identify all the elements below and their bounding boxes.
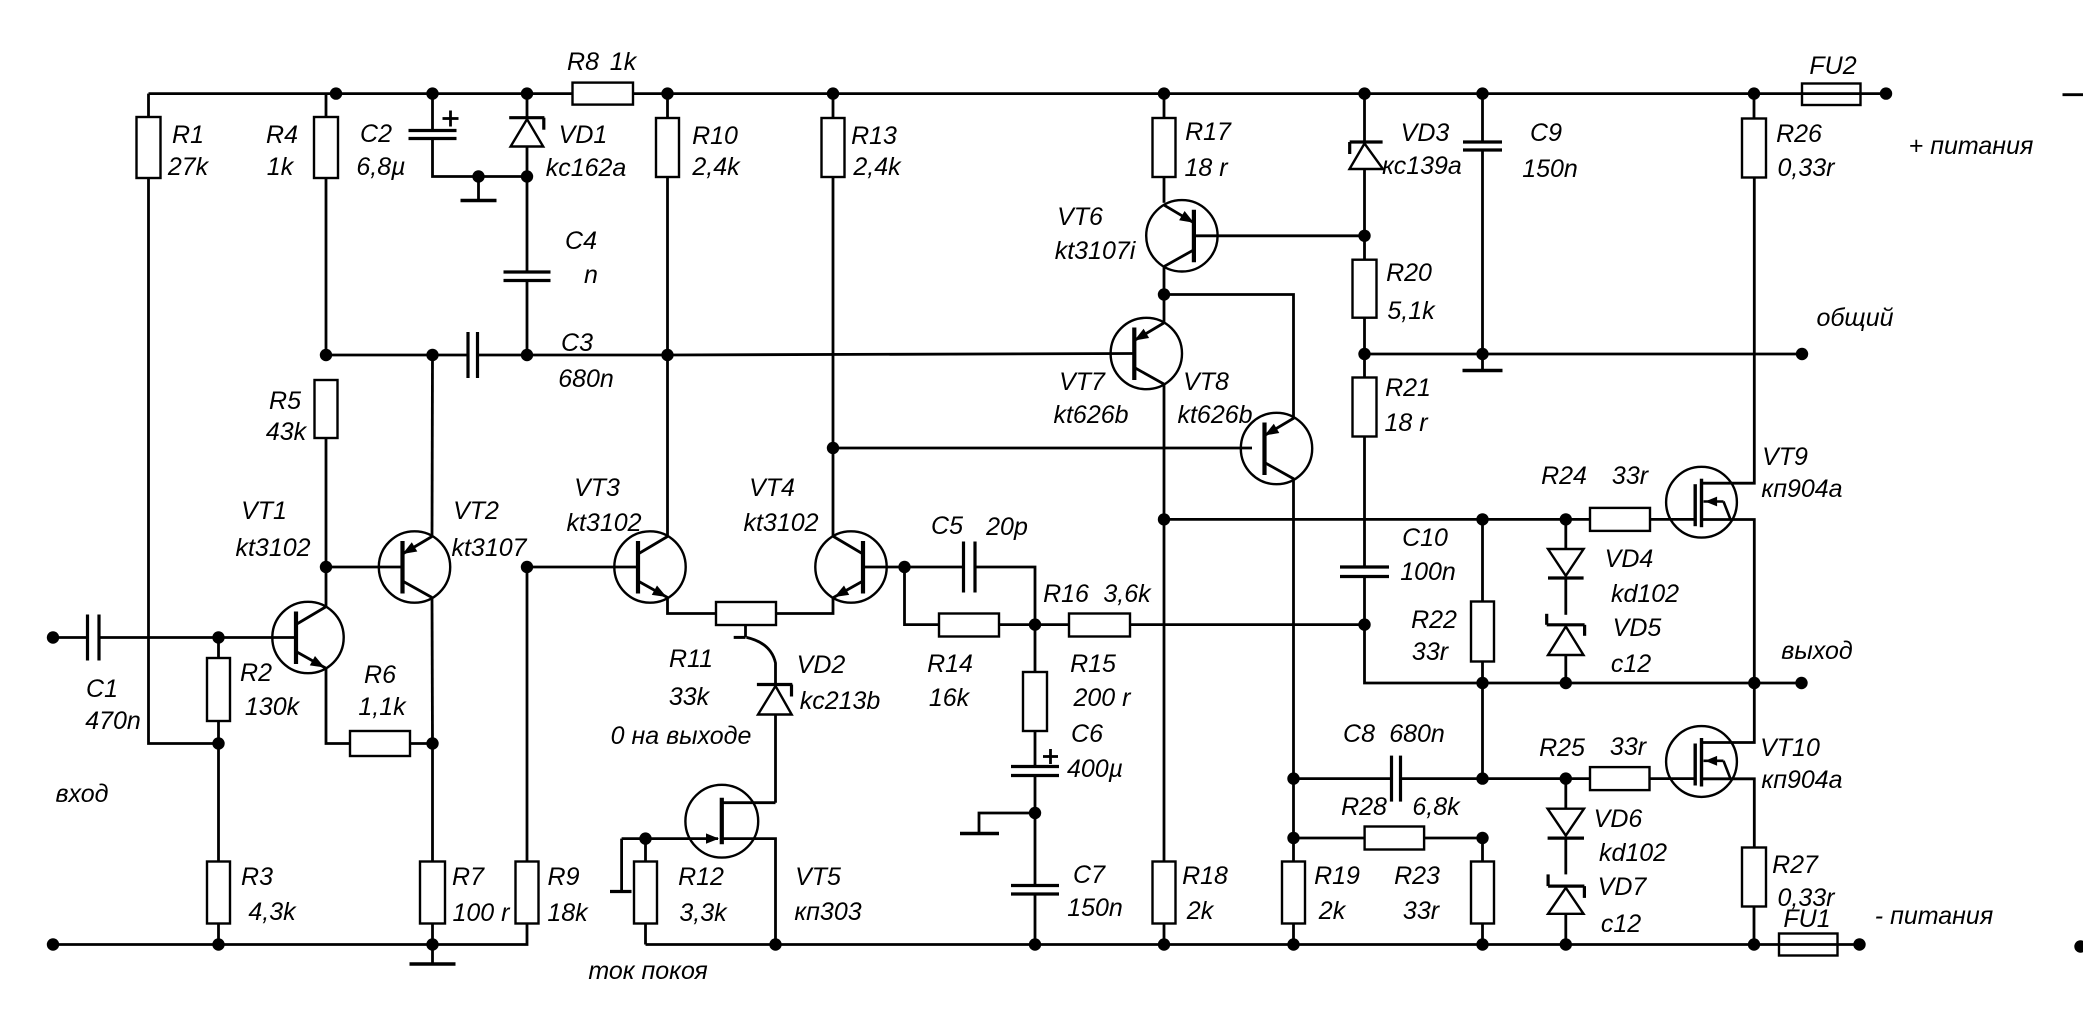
svg-text:R5: R5	[269, 387, 301, 415]
transistor VT3	[566, 355, 716, 614]
svg-text:FU2: FU2	[1809, 52, 1856, 80]
svg-text:2k: 2k	[1186, 897, 1215, 925]
node C2 tap on top rail	[426, 87, 438, 99]
svg-text:kt3107i: kt3107i	[1055, 237, 1137, 265]
resistor R4	[266, 94, 338, 355]
resistor R13	[822, 94, 903, 448]
svg-text:кп303: кп303	[794, 898, 861, 926]
svg-text:R24: R24	[1541, 462, 1587, 490]
wire VT7 base feed	[668, 354, 1135, 356]
ground near C9	[1463, 354, 1503, 371]
svg-text:kc162a: kc162a	[546, 154, 627, 182]
svg-text:VT7: VT7	[1059, 368, 1106, 396]
resistor R21	[1353, 354, 1431, 567]
node R22 bottom	[1476, 677, 1488, 689]
resistor R6	[350, 661, 433, 756]
svg-text:kd102: kd102	[1611, 580, 1679, 608]
svg-text:R12: R12	[678, 863, 724, 891]
node C7 bottom	[1029, 938, 1041, 950]
svg-text:100n: 100n	[1400, 558, 1456, 586]
transistor VT5	[622, 785, 862, 945]
svg-text:R2: R2	[240, 659, 272, 687]
resistor R2	[207, 638, 301, 744]
svg-text:kt3107: kt3107	[451, 534, 527, 562]
node C2 ground tap	[472, 170, 484, 182]
svg-text:кп904а: кп904а	[1761, 766, 1842, 794]
svg-text:R23: R23	[1394, 862, 1440, 890]
svg-text:1k: 1k	[267, 153, 295, 181]
svg-text:VT9: VT9	[1762, 443, 1808, 471]
svg-text:C9: C9	[1530, 119, 1562, 147]
node C9 tap on top rail	[1476, 87, 1488, 99]
svg-text:kc213b: kc213b	[800, 687, 881, 715]
wire stub bottom right edge	[2074, 940, 2083, 952]
node R4-R5 junction	[320, 349, 332, 361]
wire top +supply rail	[149, 92, 1887, 95]
terminal output	[1781, 637, 1853, 689]
svg-text:C2: C2	[360, 120, 392, 148]
svg-text:VD5: VD5	[1613, 614, 1662, 642]
svg-text:n: n	[584, 261, 598, 289]
node R28 left	[1287, 832, 1299, 844]
node VT6-VT7 junction	[1158, 288, 1170, 300]
svg-text:VD2: VD2	[797, 651, 846, 679]
wire bottom right rail	[646, 943, 1860, 946]
svg-text:0 на выходе: 0 на выходе	[611, 722, 752, 750]
svg-text:20p: 20p	[985, 513, 1028, 541]
svg-text:R9: R9	[548, 863, 580, 891]
svg-text:ток покоя: ток покоя	[588, 957, 707, 985]
svg-text:VT8: VT8	[1183, 368, 1229, 396]
ground near C6	[960, 813, 1035, 834]
resistor R7	[420, 744, 511, 945]
node R14-R15-C5-R16 junction	[1029, 618, 1041, 630]
svg-text:выход: выход	[1781, 637, 1853, 665]
node R17 tap on top rail	[1158, 87, 1170, 99]
svg-text:18k: 18k	[547, 899, 589, 927]
svg-text:kd102: kd102	[1599, 839, 1667, 867]
svg-text:2,4k: 2,4k	[691, 153, 741, 181]
svg-text:R16: R16	[1043, 580, 1089, 608]
potentiometer R11	[611, 602, 776, 750]
svg-text:130k: 130k	[245, 693, 301, 721]
capacitor C5	[905, 512, 1036, 625]
svg-text:5,1k: 5,1k	[1387, 297, 1436, 325]
svg-text:2,4k: 2,4k	[852, 153, 902, 181]
node VD7 bottom	[1560, 938, 1572, 950]
svg-text:kt626b: kt626b	[1177, 401, 1252, 429]
capacitor C7	[1011, 813, 1123, 945]
svg-text:200 r: 200 r	[1073, 684, 1133, 712]
svg-text:R11: R11	[669, 645, 713, 673]
resistor R27	[1742, 848, 1836, 945]
svg-text:3,3k: 3,3k	[679, 899, 728, 927]
node R23 bottom	[1476, 938, 1488, 950]
svg-text:3,6k: 3,6k	[1103, 580, 1152, 608]
node R13 tap on top rail	[827, 87, 839, 99]
node VT7 collector junction	[1158, 513, 1170, 525]
node R28 right	[1476, 832, 1488, 844]
resistor R8	[567, 48, 638, 105]
terminal -supply	[1853, 902, 1993, 951]
svg-text:6,8µ: 6,8µ	[356, 153, 405, 181]
wire output rail	[1483, 682, 1802, 685]
svg-text:VT10: VT10	[1760, 734, 1820, 762]
wire VT8 emitter link	[1164, 295, 1294, 419]
wire R22col link	[1481, 683, 1484, 779]
node C8 left	[1287, 772, 1299, 784]
resistor R10	[656, 94, 741, 355]
resistor R18	[1153, 519, 1229, 944]
svg-text:C3: C3	[561, 329, 593, 357]
node R7 bottom	[426, 938, 438, 950]
svg-text:VD7: VD7	[1598, 873, 1648, 901]
zener VD3	[1350, 94, 1462, 236]
svg-text:R4: R4	[266, 121, 298, 149]
node VD3 tap on top rail	[1358, 87, 1370, 99]
node R27 bottom	[1748, 938, 1760, 950]
svg-text:6,8k: 6,8k	[1412, 793, 1461, 821]
wire R4-R5 to C3	[326, 354, 468, 357]
svg-text:+ питания: + питания	[1909, 132, 2034, 160]
resistor R1	[137, 94, 219, 744]
diode VD6	[1548, 779, 1668, 875]
svg-text:R7: R7	[452, 863, 485, 891]
svg-text:33r: 33r	[1403, 897, 1441, 925]
node VT9-VT10 output junction	[1748, 677, 1760, 689]
node R6-R7 junction	[426, 737, 438, 749]
node VD1 tap on top rail	[521, 87, 533, 99]
label input	[56, 780, 109, 808]
node C8 right	[1476, 772, 1488, 784]
terminal bottom left	[47, 938, 59, 950]
wire common rail	[1365, 353, 1803, 356]
svg-text:R17: R17	[1185, 118, 1232, 146]
svg-text:33k: 33k	[669, 683, 711, 711]
node VD1 bottom junction	[521, 170, 533, 182]
node VT3 collector junction	[661, 349, 673, 361]
svg-text:R3: R3	[241, 863, 273, 891]
svg-text:VD4: VD4	[1605, 545, 1654, 573]
node R10 tap on top rail	[661, 87, 673, 99]
capacitor C1	[47, 615, 219, 736]
svg-text:2k: 2k	[1318, 897, 1347, 925]
svg-text:kt3102: kt3102	[743, 509, 818, 537]
svg-text:кп904а: кп904а	[1761, 475, 1842, 503]
wire VD column down to R9	[526, 567, 529, 862]
svg-text:1,1k: 1,1k	[358, 693, 407, 721]
svg-text:R26: R26	[1776, 120, 1822, 148]
trimmer R12	[610, 839, 728, 945]
fuse FU2	[1802, 52, 1861, 105]
svg-text:150n: 150n	[1067, 894, 1123, 922]
resistor R9	[516, 862, 590, 928]
wire bottom left rail	[53, 924, 527, 945]
node R2-R3 junction	[212, 737, 224, 749]
resistor R22	[1411, 519, 1494, 683]
node R22 top	[1476, 513, 1488, 525]
resistor R25	[1539, 733, 1696, 790]
node VT5 source bottom	[769, 938, 781, 950]
resistor R20	[1353, 236, 1437, 354]
svg-text:470n: 470n	[85, 707, 141, 735]
svg-text:R8: R8	[567, 48, 599, 76]
resistor R17	[1153, 94, 1233, 203]
ground near C2	[461, 177, 497, 201]
svg-text:C5: C5	[931, 512, 963, 540]
node VT4 collector junction	[827, 442, 839, 454]
node C3-C4 junction	[521, 349, 533, 361]
node VD3-R20 junction	[1358, 230, 1370, 242]
capacitor C10	[1340, 524, 1456, 625]
node VT4 base node	[898, 561, 910, 573]
svg-text:кс139а: кс139а	[1382, 152, 1462, 180]
svg-text:C1: C1	[86, 675, 118, 703]
wire lower gate rail left	[1294, 777, 1392, 780]
svg-text:VT6: VT6	[1057, 203, 1103, 231]
svg-text:R22: R22	[1411, 606, 1457, 634]
svg-text:18 r: 18 r	[1184, 154, 1229, 182]
node R18 bottom	[1158, 938, 1170, 950]
node VD4 top	[1560, 513, 1572, 525]
resistor R3	[207, 744, 297, 945]
resistor R19	[1282, 779, 1360, 945]
zener VD5	[1547, 614, 1662, 683]
svg-text:1k: 1k	[610, 48, 638, 76]
fuse FU1	[1779, 905, 1838, 956]
svg-text:0,33r: 0,33r	[1778, 884, 1837, 912]
resistor R16	[1035, 580, 1365, 637]
svg-text:33r: 33r	[1412, 638, 1450, 666]
wire VT1 base	[219, 636, 297, 639]
svg-text:4,3k: 4,3k	[248, 898, 297, 926]
svg-text:R19: R19	[1314, 862, 1360, 890]
svg-text:C6: C6	[1071, 720, 1103, 748]
node R3 bottom	[212, 938, 224, 950]
svg-text:C10: C10	[1402, 524, 1448, 552]
node VD5 bottom	[1560, 677, 1572, 689]
transistor VT1	[235, 497, 350, 744]
wire VT3 base	[527, 566, 638, 569]
svg-text:0,33r: 0,33r	[1778, 154, 1837, 182]
transistor VT4	[743, 448, 904, 614]
svg-text:kt626b: kt626b	[1053, 401, 1128, 429]
svg-text:C7: C7	[1073, 861, 1106, 889]
capacitor C9	[1463, 94, 1578, 354]
wire C3 junction to R10 column	[527, 354, 668, 357]
node R26 tap on top rail	[1748, 87, 1760, 99]
svg-text:VT1: VT1	[241, 497, 287, 525]
svg-text:R1: R1	[172, 121, 204, 149]
label quiescent current	[588, 957, 707, 985]
node R4 tap on top rail	[330, 87, 342, 99]
resistor R24	[1541, 462, 1696, 531]
svg-text:kt3102: kt3102	[566, 509, 641, 537]
svg-text:VT2: VT2	[453, 497, 499, 525]
terminal common	[1796, 304, 1894, 360]
svg-text:R18: R18	[1182, 862, 1228, 890]
node VD6 top	[1560, 772, 1572, 784]
node C10-R16 junction	[1358, 618, 1370, 630]
wire lower gate rail right	[1483, 777, 1591, 780]
diode VD4	[1548, 519, 1679, 614]
svg-text:C8: C8	[1343, 720, 1375, 748]
svg-text:680n: 680n	[558, 365, 614, 393]
svg-text:33r: 33r	[1610, 733, 1648, 761]
node C6 ground tap	[1029, 807, 1041, 819]
transistor VT2	[379, 355, 528, 744]
svg-text:VD6: VD6	[1594, 805, 1643, 833]
capacitor C4	[504, 177, 598, 355]
zener VD7	[1548, 873, 1647, 945]
wire gate drive upper	[1164, 518, 1590, 521]
node R19 bottom	[1287, 938, 1299, 950]
transistor VT10	[1666, 683, 1843, 848]
wire to output rail	[1365, 625, 1483, 683]
terminal +supply	[1880, 87, 2034, 160]
node VT3 base junction	[521, 561, 533, 573]
resistor R14	[905, 567, 1036, 712]
ground at bottom rail	[410, 945, 456, 965]
svg-text:16k: 16k	[929, 684, 971, 712]
capacitor C3	[468, 329, 614, 393]
svg-text:вход: вход	[56, 780, 109, 808]
resistor R23	[1394, 838, 1494, 945]
resistor R5	[266, 380, 338, 567]
svg-text:R10: R10	[692, 122, 738, 150]
svg-text:общий: общий	[1816, 304, 1893, 332]
capacitor C8	[1343, 720, 1482, 802]
node VT1 base junction	[212, 631, 224, 643]
transistor VT6	[1055, 200, 1365, 294]
svg-text:R25: R25	[1539, 734, 1585, 762]
svg-text:27k: 27k	[167, 153, 210, 181]
svg-text:R14: R14	[927, 650, 973, 678]
svg-text:150n: 150n	[1522, 155, 1578, 183]
svg-text:400µ: 400µ	[1067, 755, 1123, 783]
wire stub top right edge	[2063, 93, 2083, 96]
node VT2 base junction	[320, 561, 332, 573]
svg-text:33r: 33r	[1612, 462, 1650, 490]
svg-text:R28: R28	[1341, 793, 1387, 821]
svg-text:VT4: VT4	[749, 474, 795, 502]
svg-text:kt3102: kt3102	[235, 534, 310, 562]
svg-text:R21: R21	[1385, 374, 1431, 402]
node R20-R21 junction	[1358, 348, 1370, 360]
transistor VT8	[1177, 368, 1312, 779]
svg-text:R20: R20	[1386, 259, 1432, 287]
svg-text:18 r: 18 r	[1384, 409, 1429, 437]
svg-text:C4: C4	[565, 227, 597, 255]
svg-text:R27: R27	[1772, 851, 1819, 879]
svg-text:VT5: VT5	[795, 863, 841, 891]
svg-text:VD1: VD1	[559, 121, 608, 149]
transistor VT7	[1053, 295, 1182, 520]
svg-text:- питания: - питания	[1875, 902, 1993, 930]
zener VD2	[757, 651, 880, 803]
wire VT8 base	[833, 447, 1252, 450]
node VT2 collector junction	[426, 349, 438, 361]
capacitor C6	[1011, 720, 1123, 813]
wire VT2 base	[326, 566, 403, 569]
svg-text:VT3: VT3	[574, 474, 620, 502]
capacitor C2	[356, 94, 527, 181]
zener VD1	[509, 94, 626, 182]
transistor VT9	[1666, 178, 1843, 684]
svg-text:c12: c12	[1601, 910, 1641, 938]
node C9 bottom junction	[1476, 348, 1488, 360]
node VT5 gate junction	[639, 832, 651, 844]
svg-text:VD3: VD3	[1401, 119, 1450, 147]
svg-text:R13: R13	[851, 122, 897, 150]
svg-text:100 r: 100 r	[453, 899, 512, 927]
resistor R26	[1742, 94, 1836, 182]
resistor R15	[1023, 625, 1132, 767]
svg-text:43k: 43k	[266, 418, 308, 446]
svg-text:R15: R15	[1070, 650, 1116, 678]
svg-text:R6: R6	[364, 661, 396, 689]
resistor R28	[1294, 793, 1483, 850]
svg-text:680n: 680n	[1389, 720, 1445, 748]
svg-text:c12: c12	[1611, 650, 1651, 678]
